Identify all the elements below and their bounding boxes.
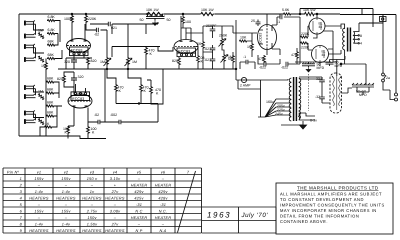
svg-text:1K: 1K <box>45 122 50 126</box>
svg-text:1M: 1M <box>247 45 252 49</box>
svg-text:1M: 1M <box>100 60 105 64</box>
capacitor .1 coupling upper <box>280 15 282 19</box>
svg-text:HEATERS: HEATERS <box>105 229 125 233</box>
capacitor .02 V2 out <box>98 120 100 124</box>
svg-text:July '70': July '70' <box>241 212 269 219</box>
svg-text:v2: v2 <box>64 170 69 174</box>
capacitor .021 coupling <box>108 22 110 26</box>
wire 68K to V2 grids <box>54 82 62 116</box>
capacitor .021 tone low <box>210 56 216 64</box>
resistor 220K grid V6 <box>300 42 308 44</box>
svg-text:1-4v: 1-4v <box>35 222 44 226</box>
svg-text:1M: 1M <box>132 60 137 64</box>
wire jack ladder ch1 <box>34 22 45 59</box>
tube V1 ECC83 <box>67 23 91 58</box>
svg-text:CONTAINED ABOVE.: CONTAINED ABOVE. <box>280 219 328 224</box>
table pin voltages <box>3 168 202 233</box>
svg-text:ECC83: ECC83 <box>72 97 84 101</box>
svg-text:MAY INCORPORATE MINOR CHANGES: MAY INCORPORATE MINOR CHANGES IN <box>280 208 377 213</box>
wire V2 cathode <box>64 72 74 94</box>
potentiometer 250K treble <box>221 38 224 46</box>
wire output tubes to OT <box>313 14 341 66</box>
svg-text:v4: v4 <box>113 170 118 174</box>
svg-text:-02: -02 <box>94 113 99 117</box>
svg-text:10K: 10K <box>240 36 247 40</box>
resistor 68K grid ch1c <box>47 44 55 46</box>
resistor 470K mixer b <box>140 84 143 92</box>
wire shield caps <box>299 78 322 80</box>
rectifier tube GZ34 <box>330 73 342 113</box>
wire left ground rail <box>18 14 20 136</box>
resistor 5.6K on HT rail <box>283 13 291 15</box>
svg-text:v5: v5 <box>137 170 142 174</box>
svg-text:820: 820 <box>91 59 97 63</box>
speaker jack <box>380 15 387 22</box>
svg-text:N C: N C <box>135 209 142 213</box>
capacitor 32uF b <box>319 94 325 101</box>
svg-text:2.75v: 2.75v <box>86 209 98 213</box>
resistor 68K grid ch1b <box>47 32 55 34</box>
wire screen join <box>296 48 298 64</box>
svg-text:1M: 1M <box>38 90 43 94</box>
svg-text:-31: -31 <box>136 203 142 207</box>
svg-text:68K: 68K <box>47 101 54 105</box>
wire 100K to bus <box>68 122 88 139</box>
power transformer PT secondary <box>299 78 301 119</box>
capacitor 50+50 filter can <box>146 14 165 21</box>
resistor 68K grid ch2b <box>46 92 54 94</box>
svg-text:ALL MARSHALL AMPLIFIERS ARE SU: ALL MARSHALL AMPLIFIERS ARE SUBJECT <box>280 192 382 197</box>
resistor 220K plate V1b <box>85 15 88 23</box>
svg-text:Pin Nº: Pin Nº <box>7 170 20 174</box>
resistor 1K V2 <box>44 126 52 128</box>
svg-text:N P: N P <box>135 229 142 233</box>
fuse 2AMP <box>241 77 246 82</box>
wire top HT rail <box>19 13 340 15</box>
resistor 47K screen <box>296 51 299 59</box>
svg-text:HEATER: HEATER <box>131 183 148 187</box>
heater winding 6.3v <box>299 113 315 120</box>
svg-text:5K: 5K <box>228 57 233 61</box>
svg-text:-31: -31 <box>160 203 166 207</box>
resistor 100K plate V3 <box>182 16 185 24</box>
resistor 56K tone slope <box>202 41 205 49</box>
resistor 10K 5W on HT rail <box>304 12 315 15</box>
capacitor .021 tone mid <box>210 45 216 53</box>
svg-text:HEATERS: HEATERS <box>56 229 76 233</box>
wire tone stack joins <box>203 26 236 69</box>
svg-text:68K: 68K <box>47 111 54 115</box>
resistor 68K grid ch1d <box>47 57 55 59</box>
svg-text:-02: -02 <box>94 33 99 37</box>
resistor 68K grid ch2c <box>46 105 54 107</box>
resistor 1M shunt ch2 lower <box>37 118 45 125</box>
svg-text:320: 320 <box>78 75 84 79</box>
input jack 3 <box>24 44 36 49</box>
wire screen grids <box>323 31 337 62</box>
svg-text:6.8K: 6.8K <box>48 15 56 19</box>
wire PI outputs <box>258 14 300 64</box>
svg-text:1-4v: 1-4v <box>62 190 71 194</box>
svg-text:155v: 155v <box>34 177 44 181</box>
wire mixers <box>107 69 158 122</box>
svg-text:N.C.: N.C. <box>159 209 168 213</box>
capacitor 50MFD reservoir main <box>302 62 315 67</box>
svg-text:v3: v3 <box>90 170 95 174</box>
tube V5 EL34 <box>309 18 325 34</box>
capacitor 250pF tone <box>210 26 216 34</box>
svg-text:TO CONSTANT DEVELOPMENT AND: TO CONSTANT DEVELOPMENT AND <box>280 197 364 202</box>
capacitor 50+50 can PS <box>352 83 374 90</box>
svg-text:220K: 220K <box>301 46 310 50</box>
svg-text:4: 4 <box>360 42 362 46</box>
svg-text:820: 820 <box>57 77 63 81</box>
svg-text:68K: 68K <box>48 40 55 44</box>
table text <box>7 170 190 233</box>
resistor 470K mixer to V3 <box>145 47 148 55</box>
wire jack ladder ch2 <box>34 86 45 120</box>
resistor 100K V2a <box>67 126 70 134</box>
svg-text:250K: 250K <box>219 34 228 38</box>
svg-text:-1: -1 <box>243 55 246 59</box>
wire rectifier top <box>330 56 346 76</box>
tube V2 ECC83 <box>68 84 92 126</box>
svg-text:50: 50 <box>167 18 171 22</box>
svg-text:-1: -1 <box>277 20 280 24</box>
wire V3 plate to tone <box>186 28 203 40</box>
capacitor .022 coupling b <box>286 62 288 66</box>
svg-text:1M: 1M <box>38 29 43 33</box>
input jack 6 <box>24 94 36 99</box>
wire HT upper link to OT primary <box>300 9 373 28</box>
wire V1 cathode <box>66 58 92 69</box>
ground below PT <box>300 121 307 129</box>
svg-text:10K 1W: 10K 1W <box>201 8 214 12</box>
input jack 7 <box>24 110 36 115</box>
resistor 470 PI cathode <box>263 55 266 63</box>
svg-text:10K 1W: 10K 1W <box>146 8 159 12</box>
electrostatic shield <box>308 74 310 111</box>
capacitor .1 PI <box>246 60 248 64</box>
svg-text:5.6K: 5.6K <box>282 8 290 12</box>
resistor 470K feedback box <box>150 86 153 94</box>
svg-text:HEATERS: HEATERS <box>56 196 76 200</box>
resistor 1M PI grid <box>251 43 254 51</box>
input jack 2 <box>24 33 36 38</box>
svg-text:25: 25 <box>251 19 255 23</box>
title strip 1963 / July 70 <box>202 207 276 233</box>
svg-text:v1: v1 <box>37 170 42 174</box>
wire 1M to bus <box>45 59 47 137</box>
power transformer PT primary <box>289 77 296 121</box>
svg-text:3.10v: 3.10v <box>110 177 121 181</box>
svg-text:429v: 429v <box>134 190 144 194</box>
svg-text:1.50v: 1.50v <box>87 222 98 226</box>
tube V6 EL34 <box>312 46 329 63</box>
wire can to rectifier <box>342 68 369 95</box>
wire mains vertical right edge <box>383 15 396 94</box>
resistor 68K grid ch2a <box>46 81 54 83</box>
wire V2 out row <box>88 69 158 122</box>
mains voltage taps <box>258 80 291 117</box>
svg-text:150 v: 150 v <box>87 177 98 181</box>
svg-text:v6: v6 <box>161 170 166 174</box>
svg-text:1-4v: 1-4v <box>35 190 44 194</box>
svg-text:2 AMP: 2 AMP <box>240 84 251 88</box>
wire PT ground run <box>281 124 303 126</box>
svg-text:160v: 160v <box>266 100 274 104</box>
svg-text:27v: 27v <box>111 222 120 226</box>
svg-text:HEATERS: HEATERS <box>105 196 125 200</box>
svg-text:320: 320 <box>64 60 70 64</box>
svg-text:HEATER: HEATER <box>155 183 172 187</box>
input jack 1 <box>24 20 36 25</box>
svg-text:1: 1 <box>20 177 22 181</box>
svg-text:1M: 1M <box>41 64 46 68</box>
capacitor 320uF V1 cathode <box>71 58 77 66</box>
svg-text:8: 8 <box>360 34 362 38</box>
mains connector <box>383 82 398 101</box>
tube V3 ECC83 <box>174 16 198 58</box>
svg-text:-32: -32 <box>315 95 320 99</box>
capacitor 32uF a <box>319 77 325 84</box>
svg-text:HEATER: HEATER <box>131 216 148 220</box>
notes box Marshall Products <box>276 183 393 234</box>
capacitor .02 ch coupling <box>96 28 98 32</box>
resistor 820 V1 cathode <box>87 57 90 65</box>
resistor 68K grid ch1a <box>47 19 55 21</box>
svg-text:150v: 150v <box>87 216 97 220</box>
svg-text:820: 820 <box>172 59 178 63</box>
svg-text:-002: -002 <box>110 113 117 117</box>
resistor 1M shunt ch1 lower <box>37 56 45 63</box>
junction dots on rails <box>71 13 73 15</box>
svg-text:THE MARSHALL PRODUCTS LTD: THE MARSHALL PRODUCTS LTD <box>297 186 379 191</box>
wire tone top <box>203 26 222 41</box>
svg-text:3.08v: 3.08v <box>110 209 121 213</box>
svg-text:47K: 47K <box>291 53 298 57</box>
input jack 8 <box>24 119 36 124</box>
svg-text:428v: 428v <box>158 196 168 200</box>
svg-text:MFD: MFD <box>317 66 325 70</box>
svg-text:1963: 1963 <box>207 211 231 220</box>
resistor 100K plate V1a <box>71 15 74 23</box>
resistor 10K 1W second on HT rail <box>200 12 214 15</box>
svg-text:245v: 245v <box>275 112 283 116</box>
svg-text:6-3v: 6-3v <box>310 119 317 123</box>
svg-text:155v: 155v <box>34 209 44 213</box>
svg-text:HEATERS: HEATERS <box>82 229 102 233</box>
svg-text:HEATERS: HEATERS <box>29 196 49 200</box>
wire 470K bottom <box>145 47 147 70</box>
resistor 1M grid leak V1 <box>45 62 48 70</box>
svg-text:34: 34 <box>322 53 326 57</box>
output transformer OT <box>341 23 362 64</box>
resistor 100K V2b <box>87 126 90 134</box>
svg-text:6.8K: 6.8K <box>48 28 56 32</box>
tube V4 phase inverter ECC83 <box>258 14 277 55</box>
svg-text:425v: 425v <box>134 196 144 200</box>
input jack 5 <box>24 85 36 90</box>
svg-text:021: 021 <box>111 26 117 30</box>
svg-text:68K: 68K <box>48 53 55 57</box>
wire feedback box <box>147 69 163 104</box>
svg-text:100: 100 <box>185 20 191 24</box>
capacitor .002 V2 out <box>119 120 121 124</box>
svg-text:2a: 2a <box>386 76 390 80</box>
wire V1 plate coupling row <box>86 22 158 34</box>
capacitor 320uF V2 cathode <box>71 74 77 84</box>
input jack 4 <box>24 57 36 62</box>
wire volume stubs <box>107 30 128 69</box>
svg-text:-021: -021 <box>204 47 211 51</box>
resistor 220K grid V5 <box>300 36 308 38</box>
svg-text:100K: 100K <box>64 17 73 21</box>
resistor 5K PI tail <box>232 55 235 63</box>
wire PI grid parts <box>241 33 257 57</box>
potentiometer 1M volume ch1-2 <box>106 57 109 65</box>
wire PI input column <box>236 20 241 69</box>
svg-text:-021: -021 <box>204 58 211 62</box>
wire PI bottom row <box>233 52 255 69</box>
wire coupling row verticals <box>112 24 173 57</box>
svg-text:220K: 220K <box>301 32 310 36</box>
wire 1K <box>40 116 57 136</box>
svg-text:HEATER: HEATER <box>155 216 172 220</box>
capacitor .022 coupling a <box>264 62 266 66</box>
wire ground bus bottom-left <box>19 136 106 139</box>
svg-text:50: 50 <box>140 18 144 22</box>
svg-text:155v: 155v <box>61 177 71 181</box>
capacitor 50MFD rectifier <box>326 62 334 64</box>
svg-text:68K: 68K <box>47 88 54 92</box>
resistor 1M shunt ch1 upper <box>37 32 45 39</box>
svg-text:HEATERS: HEATERS <box>82 196 102 200</box>
svg-text:-022: -022 <box>281 66 288 70</box>
wire mid ground rail <box>58 68 236 70</box>
svg-text:56: 56 <box>197 42 201 46</box>
svg-text:220K: 220K <box>88 17 97 21</box>
wire grids <box>300 17 312 64</box>
wire NFB <box>341 64 366 68</box>
svg-text:68K: 68K <box>47 77 54 81</box>
resistor 10K 1W on HT rail <box>147 12 164 15</box>
wire top right to speaker jack <box>340 15 383 24</box>
svg-text:DETAIL FROM THE INFORMATION: DETAIL FROM THE INFORMATION <box>280 214 359 219</box>
svg-text:470: 470 <box>258 57 264 61</box>
wire mains row to PT <box>236 69 288 89</box>
svg-text:4: 4 <box>20 196 22 200</box>
potentiometer 1M volume ch3-4 <box>127 57 130 65</box>
resistor 820 V2 cathode <box>63 75 66 83</box>
svg-text:155v: 155v <box>61 209 71 213</box>
resistor 68K V3 <box>197 55 200 63</box>
switch mains <box>382 23 386 82</box>
svg-text:10K 5W: 10K 5W <box>303 8 316 12</box>
svg-text:-022: -022 <box>259 66 266 70</box>
svg-text:ECC83: ECC83 <box>259 33 263 44</box>
resistor 1M shunt ch2 upper <box>37 93 45 100</box>
wire V3 cathode <box>179 47 198 70</box>
capacitor 25uF PI cathode <box>256 20 261 27</box>
ground below 50+50 <box>153 21 158 26</box>
svg-text:429v: 429v <box>158 190 168 194</box>
potentiometer 1M bass <box>223 54 226 62</box>
svg-text:27v: 27v <box>111 190 120 194</box>
resistor 820 V3 cathode <box>178 58 181 66</box>
wire B+ bias row <box>295 61 331 63</box>
svg-text:1-4v: 1-4v <box>62 222 71 226</box>
resistor 470K mixer a <box>115 84 118 92</box>
wire V3 plate to rail <box>181 14 191 31</box>
svg-text:N.A: N.A <box>159 229 166 233</box>
svg-text:IMPROVEMENT CONSEQUENTLY THE U: IMPROVEMENT CONSEQUENTLY THE UNITS <box>280 203 385 208</box>
svg-text:34: 34 <box>319 25 323 29</box>
svg-text:MFD: MFD <box>335 64 343 68</box>
resistor 68K grid ch2d <box>46 115 54 117</box>
resistor 10K PI <box>239 40 247 42</box>
svg-text:HEATERS: HEATERS <box>29 229 49 233</box>
wire 68K to V1 grids <box>55 21 62 59</box>
